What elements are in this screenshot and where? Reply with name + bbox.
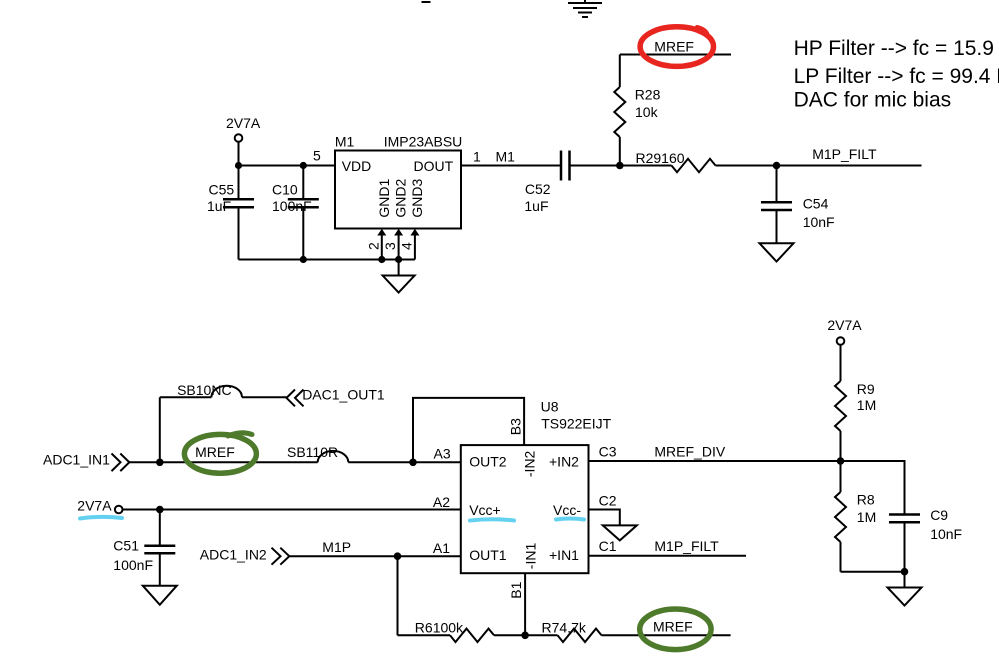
svg-text:10nF: 10nF [930,526,962,542]
node junction M1P [616,162,624,170]
wire branch up to DAC1_OUT1 [160,397,287,462]
svg-text:C55: C55 [209,181,235,197]
ground (under mic) [383,260,415,293]
svg-text:2V7A: 2V7A [77,498,112,514]
resistor R28 10k [614,55,660,166]
wire 2V7A rail to Vcc+ [123,509,461,511]
svg-text:C2: C2 [599,493,617,509]
pin A1 label [433,540,450,556]
svg-text:DOUT: DOUT [414,158,454,174]
annotation green circle around MREF (middle) [184,433,256,473]
svg-text:-IN2: -IN2 [521,450,537,477]
ground (under C51) [143,586,177,605]
svg-text:M1P_FILT: M1P_FILT [654,538,719,554]
node junction VDD rail at C55 [235,162,242,169]
ground (under C54) [760,243,794,261]
port ADC1_IN1 [43,452,129,472]
svg-text:A1: A1 [433,540,450,556]
annotation green circle around MREF (bottom) [640,609,711,650]
svg-text:LP Filter --> fc = 99.4 KHz: LP Filter --> fc = 99.4 KHz [794,65,999,88]
svg-text:+IN2: +IN2 [549,454,579,470]
svg-text:C51: C51 [113,537,139,553]
wire MREF_DIV to C9 [841,461,905,515]
pin C1 wire M1P_FILT [589,538,747,556]
pin A3 label [434,446,451,462]
svg-text:R9: R9 [857,381,875,397]
annotation red circle around MREF [640,27,713,67]
solder bridge SB10NC [177,382,242,398]
svg-text:M1P: M1P [322,539,351,555]
svg-text:GND1: GND1 [376,178,392,217]
svg-text:100nF: 100nF [113,557,153,573]
svg-text:VDD: VDD [342,158,372,174]
svg-text:ADC1_IN2: ADC1_IN2 [200,546,267,562]
pin A2 label [433,494,450,510]
wire M1P_FILT [777,146,922,165]
svg-text:MREF: MREF [653,618,693,634]
capacitor C10 [272,166,319,260]
node junction gnd rail pin3 [395,256,402,263]
svg-text:5: 5 [313,148,321,164]
svg-text:A3: A3 [434,446,451,462]
svg-text:-IN1: -IN1 [522,543,538,570]
node MREF (bottom) [653,618,693,634]
op-amp U8 TS922EIJT [461,398,612,573]
svg-text:SB10NC: SB10NC [177,382,231,398]
svg-text:1M: 1M [857,509,876,525]
node junction A3 [409,459,417,467]
ground (earth symbol top) [568,0,602,17]
svg-text:10k: 10k [635,104,659,120]
port DAC1_OUT1 [287,387,385,407]
pin 2 GND1 [365,229,386,260]
svg-text:U8: U8 [541,398,559,414]
node junction gnd rail at C10 [300,256,307,263]
pin C2 wire to ground [589,493,620,526]
svg-text:1: 1 [473,149,481,165]
svg-text:3: 3 [382,242,398,250]
power 2V7A (middle) [77,498,122,514]
svg-text:HP Filter --> fc = 15.9 Hz: HP Filter --> fc = 15.9 Hz [794,37,999,60]
annotation cyan underline Vcc- [556,519,584,520]
svg-text:TS922EIJT: TS922EIJT [541,416,611,432]
svg-text:M1P_FILT: M1P_FILT [812,146,877,162]
wire MREF horizontal [620,54,731,56]
resistor R29 160 [620,150,777,172]
svg-text:C54: C54 [803,196,829,212]
wire feedback OUT1 down [397,556,399,635]
pin C3 wire MREF_DIV [589,444,841,461]
svg-text:DAC1_OUT1: DAC1_OUT1 [302,387,385,403]
svg-text:M1: M1 [496,149,516,165]
wire divider bottom rail [841,571,905,573]
wire (cropped stub top-left) [422,1,431,3]
resistor R7 4.7k [542,620,602,642]
svg-text:R6100k: R6100k [415,620,464,636]
node junction M1P at OUT1 [394,552,402,560]
svg-text:M1: M1 [335,133,355,149]
svg-text:MREF: MREF [654,39,694,55]
svg-text:R29160: R29160 [636,150,685,166]
svg-text:B1: B1 [508,581,524,598]
capacitor C55 [207,166,254,260]
svg-text:ADC1_IN1: ADC1_IN1 [43,452,110,468]
svg-text:R8: R8 [857,492,875,508]
node junction 2V7A at C51 [156,506,164,514]
node junction MREF_DIV [837,457,845,465]
node MREF (top) [654,39,694,55]
svg-text:GND3: GND3 [409,178,425,217]
ground (under C2) [603,525,637,540]
svg-text:Vcc-: Vcc- [553,502,581,518]
power 2V7A (right) [827,317,862,345]
svg-text:MREF: MREF [195,444,235,460]
annotation text notes [794,37,999,112]
resistor R9 1M [835,345,876,461]
svg-text:OUT2: OUT2 [469,454,507,470]
pin 3 GND2 [382,229,403,260]
microphone M1 IMP23ABSU [335,133,462,228]
wire bottom rail MREF [398,634,731,636]
svg-text:4: 4 [398,242,414,250]
svg-text:+IN1: +IN1 [549,547,579,563]
capacitor C51 [113,510,175,586]
node junction M1P_FILT [773,162,781,170]
svg-text:R28: R28 [635,86,661,102]
node junction B1 [521,632,529,640]
svg-text:Vcc+: Vcc+ [469,502,501,518]
svg-text:100nF: 100nF [272,198,312,214]
wire M1P net [289,539,461,556]
svg-text:B3: B3 [507,418,523,435]
svg-text:2: 2 [365,242,381,250]
capacitor C52 [524,151,569,215]
svg-text:10nF: 10nF [803,214,835,230]
svg-text:1M: 1M [857,397,876,413]
wire C52 to junction [570,165,620,167]
svg-text:C10: C10 [272,181,298,197]
svg-text:1uF: 1uF [524,198,548,214]
svg-text:OUT1: OUT1 [469,547,507,563]
wire ADC1_IN1 / MREF net [129,461,461,463]
wire VDD rail [239,165,336,167]
ground (under divider) [888,572,922,606]
annotation cyan underline 2V7A [80,517,122,519]
svg-text:SB110R: SB110R [287,444,338,460]
node junction gnd rail pin2 [378,256,385,263]
svg-text:C9: C9 [930,507,948,523]
pin 1 wire DOUT [461,149,561,166]
node junction ADC1_IN1 [156,459,164,467]
svg-text:IMP23ABSU: IMP23ABSU [384,133,463,149]
pin B3 label [507,418,523,435]
svg-text:MREF_DIV: MREF_DIV [654,444,725,460]
power 2V7A (top) [226,115,261,166]
node junction divider ground [901,568,909,576]
pin 5 label [313,148,321,164]
node junction VDD rail at C10 [300,162,307,169]
svg-text:GND2: GND2 [393,178,409,217]
node M1 [496,149,516,165]
node MREF (middle) [195,444,235,460]
svg-text:R74.7k: R74.7k [542,620,587,636]
annotation cyan underline Vcc+ [470,519,514,520]
svg-text:A2: A2 [433,494,450,510]
pin B1 wire [508,573,525,635]
svg-text:1uF: 1uF [207,198,231,214]
svg-text:DAC for mic bias: DAC for mic bias [794,89,952,112]
pin 4 GND3 [398,229,419,260]
port ADC1_IN2 [200,546,289,564]
svg-text:C1: C1 [599,538,617,554]
svg-text:2V7A: 2V7A [827,317,862,333]
resistor R6 100k [415,620,494,642]
svg-text:C52: C52 [525,181,551,197]
capacitor C9 [889,507,962,572]
svg-text:C3: C3 [599,444,617,460]
resistor R8 1M [835,461,876,572]
wire ground rail under mic [239,259,415,261]
wire feedback B3 loop [413,398,524,462]
capacitor C54 [761,166,835,244]
svg-text:2V7A: 2V7A [226,115,261,131]
solder bridge SB110R [287,444,348,462]
